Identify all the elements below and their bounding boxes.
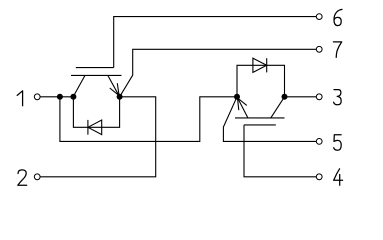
Q1 emitter arrowhead [110, 83, 119, 95]
wire node 1 to Q2 emitter [60, 97, 237, 142]
terminal 3 circle [316, 94, 322, 100]
diode D1 cathode bar [87, 120, 89, 135]
diode D1 triangle [88, 120, 102, 135]
IGBT Q2 channel bar [235, 117, 285, 119]
label 2 [18, 170, 27, 185]
terminal 1 wire [40, 96, 76, 98]
Q2 collector lead [271, 97, 285, 118]
wire terminal 6 to Q1 gate [114, 17, 316, 68]
diode D2 branch wire [237, 65, 285, 97]
Q2 emitter arrowhead [238, 98, 247, 110]
label 1 [17, 91, 22, 106]
terminal 5 circle [316, 139, 322, 145]
Q2 emitter lead [237, 97, 248, 118]
Q1 collector lead [73, 75, 85, 96]
label 6 [334, 9, 342, 25]
wire Q2 gate to terminal 4 [244, 125, 316, 177]
terminal 4 circle [316, 174, 322, 180]
IGBT Q1 channel bar [71, 74, 122, 76]
junction dot Q2 emitter [234, 94, 240, 100]
junction dot node 1b [70, 94, 76, 100]
junction dot node 1a [57, 94, 63, 100]
terminal 7 circle [316, 46, 322, 52]
junction dot Q2 collector [282, 94, 288, 100]
Q1 emitter lead [108, 75, 120, 96]
label 5 [334, 135, 342, 150]
IGBT Q1 gate bar [76, 67, 114, 69]
terminal 1 circle [34, 94, 40, 100]
diode D2 cathode bar [266, 58, 268, 72]
label 4 [334, 169, 343, 185]
diode D2 triangle [253, 58, 267, 72]
IGBT Q2 gate bar [244, 124, 276, 126]
wire Q2 aux emitter to terminal 5 [223, 97, 316, 142]
junction dot Q1 emitter [117, 94, 123, 100]
diode D1 branch wire [73, 97, 119, 128]
terminal 2 circle [34, 174, 40, 180]
label 7 [333, 42, 341, 58]
wire terminal 7 to Q1 aux emitter [120, 49, 316, 97]
labels group (single-stroke digits) [17, 9, 342, 185]
terminal 3 wire [285, 96, 317, 98]
wire Q1 emitter to terminal 2 [40, 97, 155, 177]
label 3 [334, 90, 342, 105]
terminal 6 circle [316, 14, 322, 20]
